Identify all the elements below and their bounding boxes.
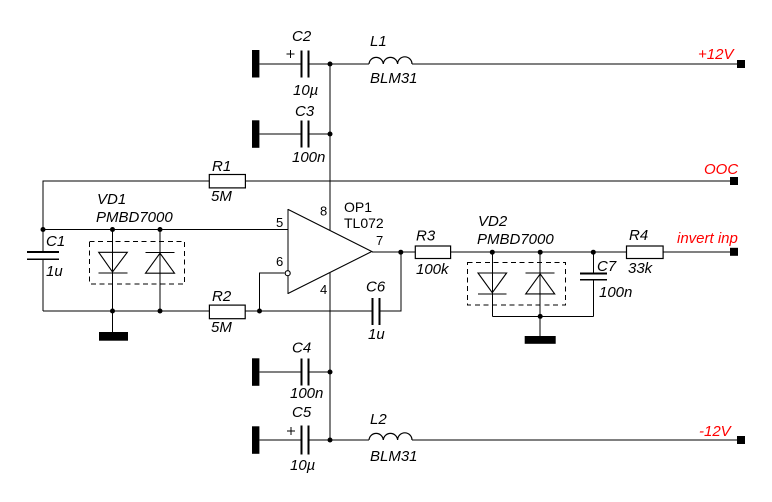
- svg-text:10µ: 10µ: [293, 82, 318, 99]
- svg-text:PMBD7000: PMBD7000: [477, 231, 554, 248]
- capacitor C1: [27, 230, 65, 312]
- svg-text:BLM31: BLM31: [370, 70, 418, 87]
- node (C4 junction): [328, 370, 333, 375]
- wire (ground to C3): [259, 133, 301, 135]
- svg-text:VD2: VD2: [478, 213, 508, 230]
- svg-text:100n: 100n: [292, 149, 325, 166]
- wire (-12V rail): [412, 439, 737, 441]
- diode VD1b (cathode up): [146, 230, 175, 312]
- node (VD2 left top): [490, 250, 495, 255]
- svg-text:-12V: -12V: [699, 423, 733, 440]
- svg-text:L1: L1: [370, 33, 387, 50]
- capacitor C5: [287, 404, 316, 474]
- svg-text:C3: C3: [295, 103, 315, 120]
- svg-text:5: 5: [276, 215, 283, 230]
- wire (power rail vertical, bottom segment from pin 4): [329, 273, 331, 440]
- ground (chassis bar, C3 row): [252, 120, 259, 148]
- svg-text:C7: C7: [597, 258, 617, 275]
- label VD1: [96, 191, 173, 226]
- node (left rail / pin5): [41, 227, 46, 232]
- svg-text:1u: 1u: [46, 263, 63, 280]
- svg-text:+12V: +12V: [698, 46, 735, 63]
- node (VD1 right bottom): [158, 309, 163, 314]
- node (VD1 left bottom): [110, 309, 115, 314]
- ground (VD2): [525, 336, 556, 344]
- node (VD1 right top): [158, 227, 163, 232]
- svg-text:5M: 5M: [211, 188, 232, 205]
- net OOC: [704, 161, 738, 185]
- svg-text:OP1: OP1: [344, 199, 372, 215]
- svg-text:100k: 100k: [416, 261, 450, 278]
- svg-text:7: 7: [376, 233, 383, 248]
- label VD2: [477, 213, 554, 248]
- diode pair VD2 (dashed box): [468, 263, 566, 306]
- wire (R4 to invert inp terminal): [663, 251, 730, 253]
- net -12V: [699, 423, 745, 444]
- wire (+12V rail): [412, 63, 737, 65]
- svg-text:VD1: VD1: [97, 191, 126, 208]
- node (pin6 junction): [257, 309, 262, 314]
- op-amp OP1: [276, 199, 384, 297]
- svg-text:C6: C6: [366, 279, 386, 296]
- resistor R4: [627, 227, 664, 277]
- ground (VD1): [99, 332, 128, 341]
- net invert inp: [677, 230, 738, 256]
- svg-text:OOC: OOC: [704, 161, 738, 178]
- capacitor C7: [580, 252, 632, 316]
- svg-text:8: 8: [320, 204, 327, 219]
- wire (op-amp output): [372, 251, 416, 253]
- svg-text:BLM31: BLM31: [370, 448, 418, 465]
- svg-text:10µ: 10µ: [290, 457, 315, 474]
- wire (VD2 ground stub): [539, 316, 541, 336]
- wire (bottom row y=311 left): [43, 310, 209, 312]
- wire (C4 to rail): [308, 371, 330, 373]
- svg-text:1u: 1u: [368, 326, 385, 343]
- svg-text:C4: C4: [292, 340, 311, 357]
- svg-text:100n: 100n: [290, 385, 323, 402]
- resistor R1: [209, 158, 245, 205]
- resistor R2: [209, 288, 245, 336]
- wire (ground to C4): [259, 371, 301, 373]
- wire (R2 to junction): [245, 310, 373, 312]
- capacitor C2: [286, 28, 318, 99]
- inductor L1: [369, 33, 418, 87]
- node (VD2 bottom junction): [538, 314, 543, 319]
- svg-text:R3: R3: [416, 228, 436, 245]
- wire (ground to C2): [259, 63, 301, 65]
- node (C2/L1 junction): [328, 62, 333, 67]
- resistor R3: [415, 228, 450, 279]
- svg-text:33k: 33k: [628, 260, 654, 277]
- capacitor C6: [366, 279, 386, 344]
- diode VD1a (anode up): [99, 230, 128, 312]
- diode pair VD1 (dashed box): [90, 242, 185, 285]
- wire (C5 to junction): [308, 439, 369, 441]
- wire (R3 to R4): [451, 251, 627, 253]
- ground (chassis bar, C5 row): [252, 426, 259, 454]
- svg-text:C5: C5: [292, 404, 312, 421]
- wire (R1 to OOC terminal): [245, 180, 730, 182]
- node (C3 junction): [328, 132, 333, 137]
- wire (VD2 bottom row): [492, 315, 593, 317]
- wire (pin5 row): [43, 229, 288, 231]
- node (output junction): [398, 250, 403, 255]
- wire (power rail vertical, top segment to pin 8): [329, 64, 331, 230]
- wire (junction up to pin6): [260, 273, 285, 311]
- inductor L2: [369, 411, 418, 465]
- svg-text:R1: R1: [212, 158, 231, 175]
- node (VD1 left top): [110, 227, 115, 232]
- svg-text:R4: R4: [629, 227, 648, 244]
- svg-text:C2: C2: [292, 28, 312, 45]
- wire (ground to C5): [259, 439, 301, 441]
- wire (C3 to rail): [308, 133, 330, 135]
- svg-text:6: 6: [276, 254, 283, 269]
- node (C5/L2 junction): [328, 438, 333, 443]
- svg-text:C1: C1: [46, 233, 65, 250]
- capacitor C4: [290, 340, 323, 403]
- svg-text:5M: 5M: [211, 319, 232, 336]
- diode VD2a (anode up): [478, 252, 507, 316]
- svg-text:invert inp: invert inp: [677, 230, 738, 247]
- wire (left rail to R1): [43, 181, 210, 230]
- net +12V: [698, 46, 745, 68]
- diode VD2b (cathode up): [526, 252, 555, 316]
- ground (chassis bar, C2 row): [252, 50, 259, 78]
- svg-text:4: 4: [320, 282, 327, 297]
- wire (C2 to junction): [308, 63, 369, 65]
- capacitor C3: [292, 103, 325, 166]
- wire (C6 to output junction): [380, 252, 401, 311]
- svg-text:100n: 100n: [599, 284, 632, 301]
- ground (chassis bar, C4 row): [252, 358, 259, 386]
- node (C7 top): [591, 250, 596, 255]
- svg-text:PMBD7000: PMBD7000: [96, 209, 173, 226]
- wire (VD1 ground stub): [112, 311, 114, 332]
- svg-text:R2: R2: [212, 288, 232, 305]
- svg-text:L2: L2: [370, 411, 387, 428]
- svg-text:TL072: TL072: [344, 215, 384, 231]
- node (VD2 right top): [538, 250, 543, 255]
